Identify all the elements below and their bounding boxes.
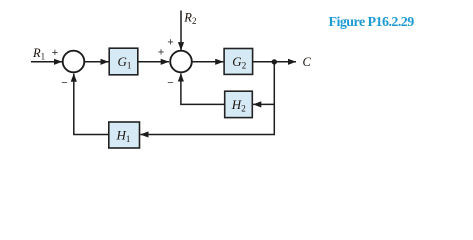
wire: summing junction 2 to G2: [192, 61, 224, 63]
wire: branch into H2: [253, 103, 274, 105]
svg-text:C: C: [303, 55, 312, 69]
block G2: [224, 49, 253, 75]
wire: node dot down and left to H1: [140, 62, 274, 135]
wire: G1 to summing junction 2: [138, 61, 169, 63]
block H1: [109, 122, 140, 148]
summing junction 2: [170, 51, 192, 73]
wire: H2 to summing junction 2 (feedback): [181, 74, 225, 105]
block H2: [225, 91, 253, 117]
svg-text:−: −: [167, 77, 174, 89]
summing junction 1: [63, 51, 85, 73]
wire: R2 input down into summing junction 2: [180, 11, 182, 51]
svg-text:−: −: [61, 77, 68, 89]
svg-text:R2: R2: [183, 11, 196, 27]
svg-text:+: +: [158, 46, 165, 58]
block G1: [109, 48, 138, 75]
svg-text:+: +: [52, 47, 59, 59]
svg-text:Figure P16.2.29: Figure P16.2.29: [329, 15, 415, 30]
svg-text:+: +: [167, 36, 174, 48]
wire: summing junction 1 to G1: [84, 61, 108, 63]
wire: H1 to summing junction 1 (feedback): [74, 74, 109, 135]
wire: G2 to output C: [253, 61, 296, 63]
wire: R1 input line: [31, 61, 62, 63]
svg-text:R1: R1: [32, 46, 45, 62]
junction node dot: [272, 59, 277, 64]
